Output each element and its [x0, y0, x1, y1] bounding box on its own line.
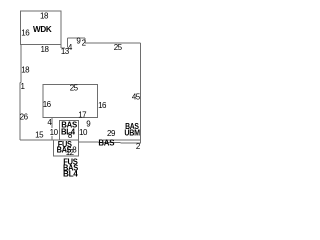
svg-text:10: 10	[50, 128, 59, 137]
house top edge 25	[85, 42, 141, 44]
svg-text:26: 26	[20, 112, 29, 121]
wood deck WDK rectangle	[21, 11, 61, 45]
svg-text:45: 45	[132, 92, 141, 101]
svg-text:18: 18	[21, 65, 30, 74]
svg-text:BAS: BAS	[98, 139, 114, 148]
svg-text:WDK: WDK	[33, 25, 52, 34]
porch step down 2	[84, 38, 86, 43]
house right edge 45	[140, 43, 142, 143]
svg-text:18: 18	[40, 12, 49, 21]
svg-text:17: 17	[78, 110, 87, 119]
svg-text:18: 18	[41, 45, 50, 54]
svg-text:25: 25	[114, 43, 123, 52]
svg-text:BAS: BAS	[57, 145, 72, 154]
svg-text:BL4: BL4	[63, 169, 78, 178]
svg-text:16: 16	[98, 101, 107, 110]
house left edge lower	[19, 83, 21, 141]
house left edge upper	[20, 45, 22, 83]
svg-text:29: 29	[107, 129, 116, 138]
svg-text:15: 15	[35, 130, 44, 139]
porch step vertical 4	[67, 38, 69, 47]
house bottom edge left part	[20, 139, 79, 141]
svg-text:25: 25	[70, 83, 79, 92]
wdk right edge extension	[60, 45, 62, 48]
svg-text:16: 16	[43, 100, 52, 109]
lower FUS/BAS box	[54, 140, 79, 156]
sloped lower line 29	[78, 142, 140, 143]
svg-text:10: 10	[79, 128, 88, 137]
svg-text:BL4: BL4	[61, 127, 76, 136]
middle rect 25x16	[43, 85, 97, 118]
bottom line right section	[103, 139, 141, 141]
jog 1ft	[20, 82, 21, 84]
inner BAS/BL4 box	[60, 120, 79, 140]
svg-text:16: 16	[21, 29, 30, 38]
porch top edge 9	[68, 37, 86, 39]
step vertical 10 left	[51, 118, 53, 140]
porch step top	[61, 47, 65, 49]
svg-text:UBM: UBM	[124, 128, 140, 137]
